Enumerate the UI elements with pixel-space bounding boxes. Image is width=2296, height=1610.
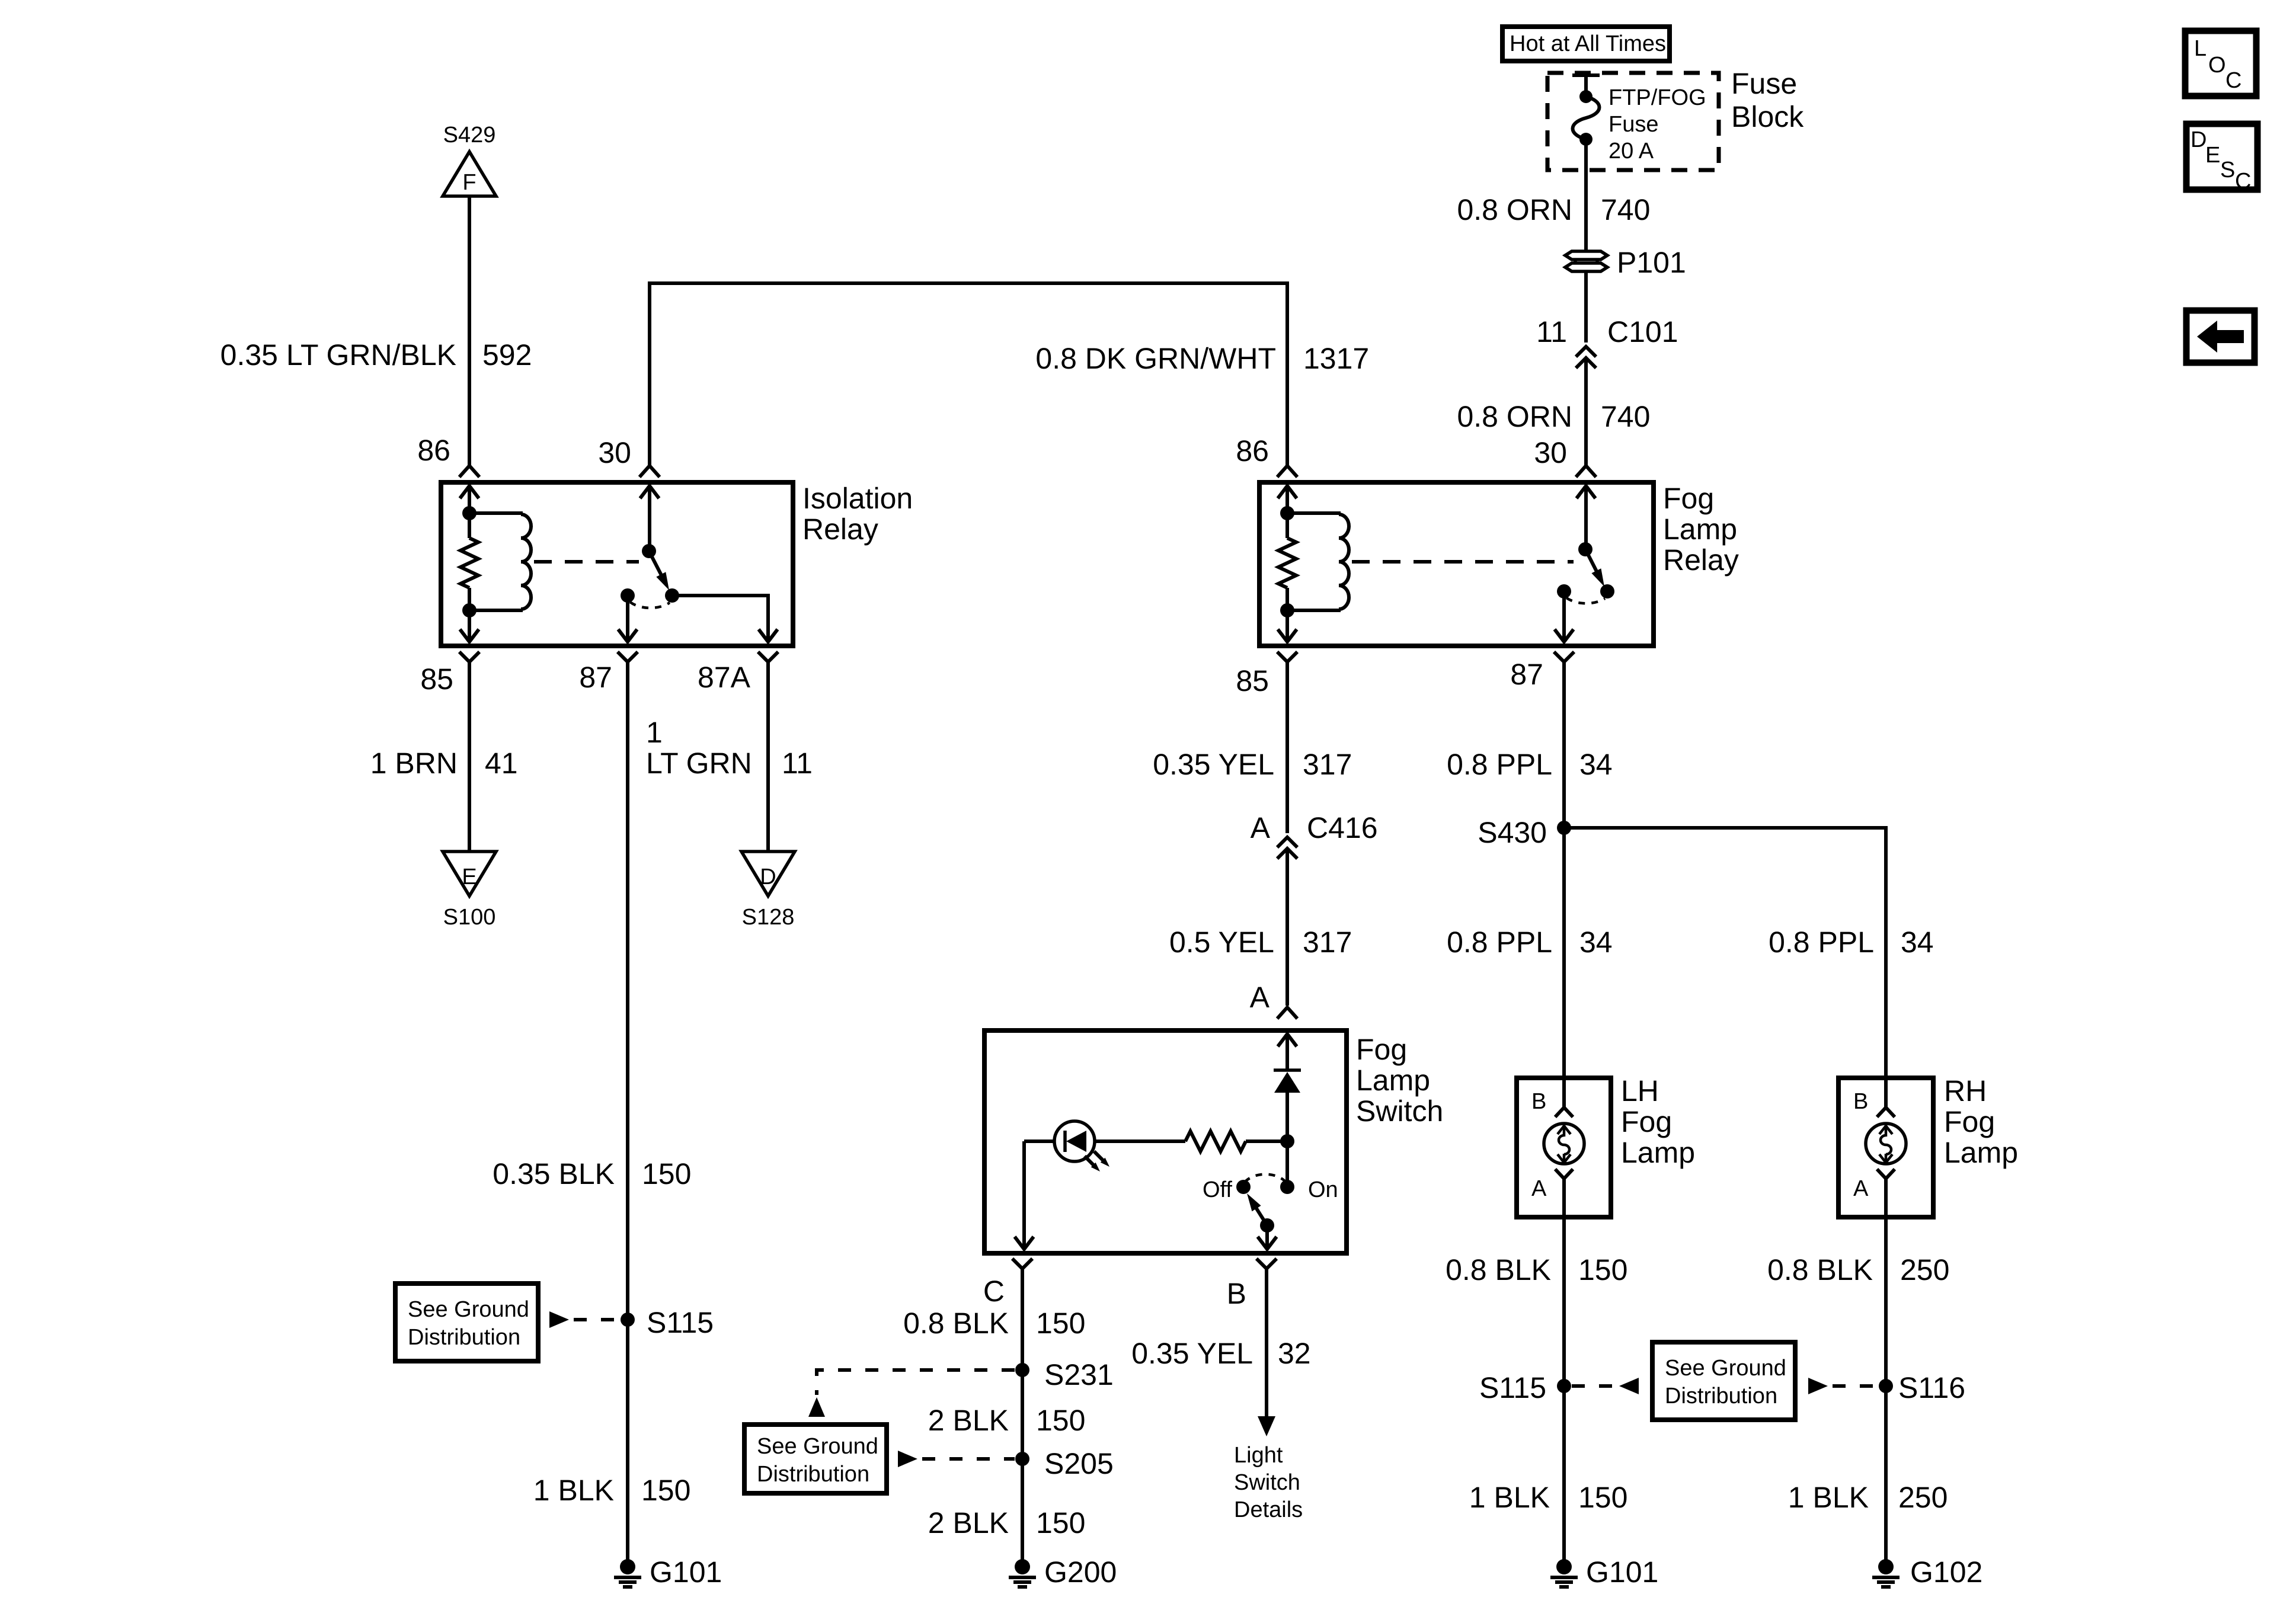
svg-text:250: 250 <box>1900 1253 1949 1286</box>
isolation relay wire to pin 87 <box>618 596 637 642</box>
LH fog lamp E1 box <box>1517 1078 1611 1217</box>
isolation relay coil top junction dot <box>462 506 477 520</box>
off-page connector E (to S100) <box>443 852 496 896</box>
svg-text:P101: P101 <box>1617 246 1686 279</box>
wire label 2 BLK 150 (lower) <box>928 1506 1086 1539</box>
svg-text:FTP/FOG: FTP/FOG <box>1609 85 1706 110</box>
svg-text:S430: S430 <box>1478 816 1547 849</box>
svg-text:740: 740 <box>1601 400 1650 433</box>
svg-text:150: 150 <box>1036 1307 1085 1340</box>
svg-text:A: A <box>1250 981 1270 1014</box>
wire label 2 BLK 150 (upper) <box>928 1404 1086 1437</box>
wire 150 LH lamp to G101 <box>1562 1217 1566 1567</box>
svg-text:E: E <box>462 865 477 889</box>
svg-text:See Ground: See Ground <box>408 1297 529 1322</box>
svg-text:Lamp: Lamp <box>1663 513 1737 546</box>
svg-text:Distribution: Distribution <box>757 1462 869 1487</box>
RH fog lamp pin B connector <box>1877 1078 1895 1117</box>
svg-text:2 BLK: 2 BLK <box>928 1506 1009 1539</box>
svg-text:Fuse: Fuse <box>1731 67 1797 100</box>
svg-text:Light: Light <box>1234 1443 1283 1468</box>
svg-text:0.8 ORN: 0.8 ORN <box>1457 193 1572 226</box>
svg-text:Off: Off <box>1203 1177 1232 1202</box>
fog lamp relay contact 87 dot <box>1557 584 1571 598</box>
svg-text:G101: G101 <box>650 1555 722 1589</box>
see ground distribution callout box (right) <box>1652 1342 1795 1420</box>
svg-text:Relay: Relay <box>1663 543 1739 577</box>
fog lamp relay pin 85 connector <box>1277 652 1297 662</box>
ground G101 label (right) <box>1586 1555 1658 1589</box>
fog lamp relay K2 box <box>1259 482 1654 646</box>
wire 317 C416 to switch pin A <box>1285 850 1289 1006</box>
fog lamp relay switch pivot dot <box>1578 542 1593 556</box>
power label Hot at All Times box <box>1502 27 1670 61</box>
isolation relay mechanical link dashed <box>534 560 639 564</box>
wire P101 to C101 <box>1584 271 1588 343</box>
svg-text:1 BRN: 1 BRN <box>370 747 458 780</box>
wire label 0.8 DK GRN/WHT 1317 <box>1035 342 1369 375</box>
ground G102 symbol <box>1872 1559 1900 1587</box>
svg-text:30: 30 <box>598 436 631 469</box>
svg-text:0.8 PPL: 0.8 PPL <box>1447 748 1552 781</box>
svg-text:A: A <box>1251 811 1271 844</box>
isolation relay wire to pin 87A <box>672 596 778 642</box>
splice S205 dot <box>1015 1452 1029 1466</box>
LH fog lamp pin B connector <box>1555 1078 1573 1117</box>
isolation relay pin 30 connector <box>639 466 660 477</box>
in-line connector C101 double chevron <box>1576 347 1596 368</box>
ground G102 label <box>1910 1555 1982 1589</box>
splice S116 dot <box>1879 1379 1893 1393</box>
fog lamp switch pin C connector <box>1012 1259 1032 1269</box>
switch wire diode to On contact <box>1285 1141 1289 1187</box>
svg-text:B: B <box>1227 1277 1246 1310</box>
fuse block bus tick <box>1572 73 1600 77</box>
svg-text:B: B <box>1531 1089 1546 1114</box>
fog lamp relay pin 87 connector <box>1554 652 1574 662</box>
isolation relay pin 86 connector <box>459 466 479 477</box>
svg-text:L: L <box>2194 36 2207 61</box>
svg-text:E: E <box>2205 143 2220 168</box>
svg-text:2 BLK: 2 BLK <box>928 1404 1009 1437</box>
callout arrow to S205 <box>898 1451 917 1467</box>
svg-text:150: 150 <box>1036 1506 1085 1539</box>
switch Off contact dot <box>1236 1180 1251 1194</box>
svg-text:RH: RH <box>1944 1074 1987 1108</box>
switch wire pivot to pin B <box>1258 1225 1277 1249</box>
svg-text:1 BLK: 1 BLK <box>533 1474 614 1507</box>
svg-text:A: A <box>1531 1176 1547 1201</box>
svg-text:11: 11 <box>782 747 813 780</box>
svg-text:150: 150 <box>641 1474 690 1507</box>
fog lamp relay pin 86 number <box>1236 434 1269 468</box>
wire label 0.8 BLK 150 (switch) <box>903 1307 1085 1340</box>
wire 150 from isolation relay 87 to G101 <box>626 662 629 1567</box>
svg-text:1: 1 <box>646 716 663 749</box>
dashed leader S115 to callout <box>1572 1384 1614 1388</box>
DESC legend icon <box>2186 124 2257 194</box>
svg-text:See Ground: See Ground <box>1665 1356 1786 1381</box>
splice S116 label <box>1898 1371 1965 1404</box>
svg-text:S429: S429 <box>443 123 496 148</box>
svg-text:C101: C101 <box>1607 315 1678 348</box>
svg-text:Fuse: Fuse <box>1609 112 1658 137</box>
fog lamp relay pin 86 connector <box>1277 466 1297 477</box>
isolation relay pin 87A connector <box>758 652 778 662</box>
fog lamp relay pin 87 number <box>1510 658 1543 691</box>
fog lamp relay resistor <box>1278 513 1296 612</box>
dashed leader to S205 <box>922 1457 1015 1461</box>
splice S430 dot <box>1557 821 1571 835</box>
svg-text:34: 34 <box>1901 926 1934 959</box>
isolation relay pin 85 number <box>420 662 453 696</box>
LH fog lamp pin B letter <box>1531 1089 1546 1114</box>
svg-text:LT GRN: LT GRN <box>646 747 752 780</box>
callout arrow to S115 (right) <box>1619 1378 1639 1394</box>
fuse FTP/FOG 20A element <box>1573 90 1600 146</box>
wire label 1 BLK 150 (LH) <box>1469 1481 1628 1514</box>
svg-text:1 BLK: 1 BLK <box>1788 1481 1869 1514</box>
see ground distribution callout box (middle) <box>744 1425 887 1493</box>
dashed leader to S115 <box>574 1318 620 1321</box>
svg-text:D: D <box>2191 127 2207 152</box>
ground G101 label (left) <box>650 1555 722 1589</box>
splice S205 label <box>1044 1447 1114 1480</box>
ground G101 symbol (left) <box>614 1559 641 1587</box>
isolation relay pin 85 internal arrow <box>460 610 479 642</box>
svg-text:G101: G101 <box>1586 1555 1658 1589</box>
svg-text:Details: Details <box>1234 1497 1303 1522</box>
svg-text:LH: LH <box>1621 1074 1659 1108</box>
switch arm pivot dot <box>1260 1218 1274 1233</box>
ground G101 symbol (right) <box>1550 1559 1578 1587</box>
svg-text:11: 11 <box>1536 315 1567 348</box>
svg-text:32: 32 <box>1278 1337 1311 1370</box>
wire label 0.8 PPL 34 (LH) <box>1447 926 1613 959</box>
wire 34 S430 to LH fog lamp <box>1562 828 1566 1078</box>
LH fog lamp pin A connector <box>1555 1169 1573 1217</box>
svg-text:C: C <box>983 1275 1005 1308</box>
svg-text:250: 250 <box>1898 1481 1948 1514</box>
svg-text:592: 592 <box>482 338 532 372</box>
svg-text:0.35 BLK: 0.35 BLK <box>493 1157 615 1190</box>
svg-text:34: 34 <box>1579 748 1613 781</box>
isolation relay K1 box <box>441 482 793 646</box>
wire C101 to fog relay pin 30 <box>1584 360 1588 466</box>
fog lamp relay pin 30 number <box>1534 436 1567 469</box>
connector C101 pin 11 label <box>1536 315 1678 348</box>
wire label 0.35 YEL 317 <box>1153 748 1352 781</box>
svg-text:150: 150 <box>642 1157 691 1190</box>
wire label 0.8 BLK 150 (LH) <box>1446 1253 1627 1286</box>
fog lamp relay coil <box>1287 513 1349 610</box>
splice S115 dot (left) <box>621 1313 635 1327</box>
dashed leader to S116 <box>1833 1384 1878 1388</box>
fuse value label FTP/FOG Fuse 20 A <box>1609 85 1706 164</box>
splice S430 label <box>1478 816 1547 849</box>
connector label P101 <box>1617 246 1686 279</box>
svg-text:0.8 BLK: 0.8 BLK <box>1767 1253 1873 1286</box>
isolation relay switch pivot dot <box>642 544 656 558</box>
splice S429 label <box>443 123 496 148</box>
fuse block name label <box>1731 67 1804 133</box>
LH fog lamp bulb <box>1544 1124 1584 1164</box>
wire fuse to P101 <box>1584 139 1588 251</box>
wire label 0.8 BLK 250 (RH) <box>1767 1253 1949 1286</box>
svg-text:20 A: 20 A <box>1609 139 1654 164</box>
svg-text:S231: S231 <box>1044 1358 1114 1391</box>
fog lamp switch pin A internal arrow <box>1278 1034 1297 1070</box>
svg-text:0.8 ORN: 0.8 ORN <box>1457 400 1572 433</box>
svg-text:Block: Block <box>1731 100 1804 133</box>
RH fog lamp name label <box>1944 1074 2018 1169</box>
RH fog lamp pin A letter <box>1853 1176 1869 1201</box>
in-line connector C416 double chevron <box>1277 837 1297 859</box>
see ground distribution callout box (left) <box>395 1283 538 1361</box>
LOC legend icon <box>2185 31 2256 96</box>
RH fog lamp pin B letter <box>1853 1089 1868 1114</box>
svg-text:C: C <box>2225 68 2241 93</box>
splice S115 label (right) <box>1479 1371 1546 1404</box>
callout arrow to S116 <box>1808 1378 1828 1394</box>
wire label 0.35 YEL 32 <box>1131 1337 1310 1370</box>
switch junction dot <box>1280 1134 1294 1148</box>
switch diode CR1 <box>1274 1070 1301 1141</box>
RH fog lamp pin A connector <box>1877 1169 1895 1217</box>
wire label 0.35 BLK 150 <box>493 1157 691 1190</box>
svg-text:S115: S115 <box>1479 1371 1546 1404</box>
wire 32 from switch B to light switch <box>1258 1269 1275 1436</box>
fog lamp relay wire to pin 87 <box>1555 591 1574 642</box>
wire label 1 BLK 150 (left) <box>533 1474 691 1507</box>
fog lamp relay mechanical link dashed <box>1352 560 1574 564</box>
off-page connector D (to S128) <box>741 852 795 896</box>
wire label 1 BRN 41 <box>370 747 518 780</box>
svg-text:30: 30 <box>1534 436 1567 469</box>
wire label 1 LT GRN 11 <box>646 716 813 780</box>
svg-text:0.35 LT GRN/BLK: 0.35 LT GRN/BLK <box>220 338 456 372</box>
isolation relay pin 30 number <box>598 436 631 469</box>
fog lamp relay name label <box>1663 482 1739 577</box>
svg-text:G200: G200 <box>1044 1555 1117 1589</box>
svg-text:0.5 YEL: 0.5 YEL <box>1169 926 1274 959</box>
wire 34 fog relay 87 to S430 <box>1562 662 1566 828</box>
svg-text:Fog: Fog <box>1356 1033 1407 1066</box>
splice S100 label <box>443 905 496 930</box>
fog lamp switch pin B letter <box>1227 1277 1246 1310</box>
svg-text:87: 87 <box>579 661 612 694</box>
LH fog lamp name label <box>1621 1074 1695 1169</box>
svg-text:Fog: Fog <box>1621 1105 1672 1138</box>
splice S128 label <box>742 905 795 930</box>
ground G200 symbol <box>1009 1559 1036 1587</box>
fog lamp relay contact dashed arc <box>1566 598 1605 603</box>
wire 250 RH lamp to G102 <box>1884 1217 1888 1567</box>
svg-text:Distribution: Distribution <box>408 1325 520 1350</box>
svg-text:C: C <box>2235 169 2251 194</box>
isolation relay contact 87A dot <box>665 588 679 603</box>
wire 11 from isolation relay 87A to S128 <box>766 662 770 852</box>
svg-text:Relay: Relay <box>802 513 878 546</box>
switch resistor R1 <box>1185 1131 1287 1151</box>
svg-text:0.35 YEL: 0.35 YEL <box>1131 1337 1253 1370</box>
splice S115 dot (right) <box>1557 1379 1571 1393</box>
fuse block dashed box <box>1547 73 1719 170</box>
callout arrow to S115 <box>549 1311 569 1328</box>
switch Off label <box>1203 1177 1232 1202</box>
isolation relay resistor <box>461 513 478 612</box>
svg-text:Fog: Fog <box>1663 482 1714 515</box>
fog lamp relay pin 30 internal arrow <box>1576 486 1595 549</box>
light switch details note <box>1234 1443 1303 1522</box>
isolation relay pin 87A number <box>698 661 751 694</box>
back arrow icon <box>2186 311 2255 363</box>
fog lamp relay coil top junction dot <box>1280 506 1294 520</box>
switch On contact dot <box>1280 1180 1294 1194</box>
isolation relay pin 87 connector <box>618 652 638 662</box>
svg-text:1317: 1317 <box>1303 342 1369 375</box>
isolation relay pin 86 internal arrow <box>460 486 479 513</box>
RH fog lamp bulb <box>1866 1124 1906 1164</box>
svg-text:F: F <box>462 170 476 195</box>
svg-text:150: 150 <box>1578 1481 1627 1514</box>
svg-text:86: 86 <box>417 434 450 467</box>
fog lamp switch pin B connector <box>1256 1259 1277 1269</box>
svg-text:C416: C416 <box>1307 811 1378 844</box>
svg-text:Lamp: Lamp <box>1356 1064 1430 1097</box>
svg-text:G102: G102 <box>1910 1555 1982 1589</box>
wire from bus to fuse <box>1584 75 1588 95</box>
svg-text:87: 87 <box>1510 658 1543 691</box>
wire label 0.8 PPL 34 (above S430) <box>1447 748 1613 781</box>
isolation relay coil <box>469 513 531 610</box>
svg-text:Switch: Switch <box>1234 1470 1300 1495</box>
switch contact dashed arc <box>1245 1174 1286 1182</box>
wire label 0.8 PPL 34 (RH) <box>1769 926 1934 959</box>
wire label 0.35 LT GRN/BLK 592 <box>220 338 532 372</box>
switch arm <box>1247 1193 1267 1225</box>
splice S231 label <box>1044 1358 1114 1391</box>
svg-text:S: S <box>2220 158 2235 183</box>
wire 317 fog relay 85 to C416 <box>1285 662 1289 833</box>
svg-text:85: 85 <box>1236 664 1269 697</box>
svg-text:0.8 PPL: 0.8 PPL <box>1769 926 1874 959</box>
switch LED wire to pin C <box>1015 1141 1034 1249</box>
fog lamp switch pin A letter <box>1250 981 1270 1014</box>
wire label 0.8 ORN 740 (above P101) <box>1457 193 1650 226</box>
wire 41 from isolation relay 85 to S100 <box>468 662 471 852</box>
fog lamp switch name label <box>1356 1033 1443 1128</box>
wire label 0.8 ORN 740 (below C101) <box>1457 400 1650 433</box>
svg-text:Lamp: Lamp <box>1621 1136 1695 1169</box>
wire 150 from switch C to G200 <box>1021 1269 1024 1567</box>
isolation relay pin 30 internal arrow <box>640 486 659 551</box>
callout arrow to S231 <box>808 1397 825 1417</box>
fog lamp switch pin A connector <box>1277 1007 1297 1019</box>
fog lamp switch pin C letter <box>983 1275 1005 1308</box>
svg-text:86: 86 <box>1236 434 1269 468</box>
svg-text:34: 34 <box>1579 926 1613 959</box>
isolation relay contact dashed arc <box>630 602 670 608</box>
isolation relay switch arm <box>649 551 669 590</box>
isolation relay contact 87 dot <box>621 588 635 603</box>
isolation relay name label <box>802 482 913 546</box>
fog lamp relay switch arm <box>1585 549 1604 587</box>
fog lamp switch SW1 box <box>984 1030 1347 1253</box>
fog lamp relay right contact dot <box>1600 584 1614 598</box>
svg-text:S115: S115 <box>647 1306 714 1339</box>
svg-text:Switch: Switch <box>1356 1094 1443 1128</box>
svg-text:S128: S128 <box>742 905 795 930</box>
wire label 1 BLK 250 (RH) <box>1788 1481 1948 1514</box>
connector C416 pin A label <box>1251 811 1378 844</box>
svg-text:Lamp: Lamp <box>1944 1136 2018 1169</box>
svg-text:Fog: Fog <box>1944 1105 1995 1138</box>
switch LED indicator <box>1024 1121 1185 1172</box>
svg-text:0.8 BLK: 0.8 BLK <box>1446 1253 1551 1286</box>
fog lamp relay pin 85 number <box>1236 664 1269 697</box>
fog lamp relay pin 86 internal arrow <box>1278 486 1297 513</box>
isolation relay pin 85 connector <box>459 652 479 662</box>
svg-text:0.8 PPL: 0.8 PPL <box>1447 926 1552 959</box>
fog lamp relay coil bottom junction dot <box>1280 603 1294 617</box>
splice S231 dot <box>1015 1363 1029 1377</box>
wire 592 from F to isolation relay pin 86 <box>468 196 471 466</box>
svg-text:O: O <box>2208 53 2226 78</box>
svg-text:317: 317 <box>1303 748 1352 781</box>
isolation relay pin 86 number <box>417 434 450 467</box>
fog lamp relay pin 30 connector <box>1576 466 1596 477</box>
svg-text:150: 150 <box>1578 1253 1627 1286</box>
wire 1317 isolation relay 30 to fog relay 86 <box>650 283 1287 466</box>
svg-text:Distribution: Distribution <box>1665 1384 1777 1409</box>
svg-text:0.35 YEL: 0.35 YEL <box>1153 748 1274 781</box>
dashed leader S231 to callout <box>817 1370 1015 1395</box>
ground G200 label <box>1044 1555 1117 1589</box>
RH fog lamp E2 box <box>1838 1078 1933 1217</box>
fog lamp relay pin 85 internal arrow <box>1278 610 1297 642</box>
svg-text:B: B <box>1853 1089 1868 1114</box>
pass-through grommet P101 <box>1565 251 1607 271</box>
svg-text:S116: S116 <box>1898 1371 1965 1404</box>
svg-text:D: D <box>760 865 776 889</box>
svg-text:On: On <box>1308 1177 1338 1202</box>
switch On label <box>1308 1177 1338 1202</box>
svg-text:0.8 BLK: 0.8 BLK <box>903 1307 1009 1340</box>
wire label 0.5 YEL 317 <box>1169 926 1352 959</box>
svg-text:See Ground: See Ground <box>757 1434 878 1459</box>
isolation relay pin 87 number <box>579 661 612 694</box>
svg-text:740: 740 <box>1601 193 1650 226</box>
isolation relay coil bottom junction dot <box>462 603 477 617</box>
svg-text:317: 317 <box>1303 926 1352 959</box>
LH fog lamp pin A letter <box>1531 1176 1547 1201</box>
svg-text:150: 150 <box>1036 1404 1085 1437</box>
wire 34 S430 to RH fog lamp <box>1564 828 1886 1078</box>
svg-text:1 BLK: 1 BLK <box>1469 1481 1550 1514</box>
svg-text:0.8 DK GRN/WHT: 0.8 DK GRN/WHT <box>1035 342 1276 375</box>
svg-text:S205: S205 <box>1044 1447 1114 1480</box>
off-page connector F (to S429) <box>443 152 496 196</box>
svg-text:A: A <box>1853 1176 1869 1201</box>
svg-text:85: 85 <box>420 662 453 696</box>
svg-text:Hot at All Times: Hot at All Times <box>1510 31 1666 56</box>
svg-text:41: 41 <box>485 747 518 780</box>
svg-text:S100: S100 <box>443 905 496 930</box>
svg-text:Isolation: Isolation <box>802 482 913 515</box>
svg-text:87A: 87A <box>698 661 751 694</box>
splice S115 label (left) <box>647 1306 714 1339</box>
